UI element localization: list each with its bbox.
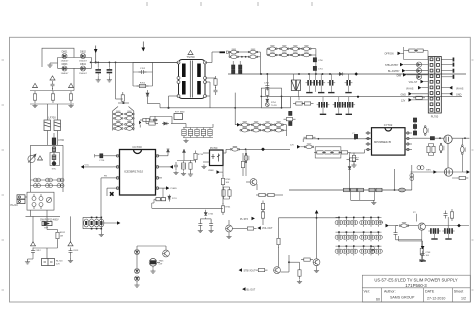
current sense bus (289, 189, 412, 191)
wire caps row2 to bus (323, 97, 349, 114)
parts under dark cap (352, 153, 355, 165)
svg-text:RL700: RL700 (56, 261, 63, 263)
aux diode D793 (99, 219, 104, 227)
capacitor C756 below diode pair (232, 65, 235, 69)
rectifier diode D750 (229, 49, 239, 54)
reference cap C765 (198, 221, 202, 229)
comp resistor 3 (330, 151, 342, 154)
resistor right of grid (284, 118, 296, 121)
capacitor C717 (174, 162, 178, 170)
grounds row 2 (320, 114, 326, 115)
wire snubber to bus (133, 61, 179, 63)
capacitor C809 (153, 116, 157, 124)
transformer TS700 label and triangle (188, 50, 194, 54)
svg-text:27-12-2010: 27-12-2010 (427, 297, 445, 301)
ground below R801 (32, 104, 37, 108)
right rail with node circle (411, 165, 413, 190)
top ruler tick 3 (257, 2, 259, 6)
svg-text:R702: R702 (140, 82, 146, 84)
snubber rows rails (267, 49, 316, 74)
aux diode D792 (94, 219, 99, 227)
resistor R797 (301, 258, 313, 261)
array LED pair D823 (360, 247, 368, 256)
sense resistor row R780-R784 (344, 188, 350, 191)
wires into PC700 (203, 149, 231, 162)
bulk capacitor C804 (107, 67, 113, 75)
ground zener stack (134, 283, 139, 287)
arrow aux out (101, 222, 117, 224)
ground under sense row (371, 201, 376, 205)
transistor Q761 (250, 179, 257, 186)
cap C750 dark (313, 58, 316, 62)
ground bar under group2 (445, 238, 451, 239)
rectifier diode D752 (248, 49, 258, 54)
ground bar under C748 (419, 260, 425, 261)
wire caps row1 to bus (309, 74, 348, 92)
zener Z701 below CC700 (168, 195, 171, 202)
earth triangle near varistor (37, 156, 43, 160)
wires Q792 region (229, 201, 263, 229)
earth triangle above R right (68, 83, 74, 87)
vertical feed to group2 (447, 217, 449, 228)
array LED pair D804 (367, 218, 375, 227)
diode bank element D6 (125, 122, 135, 127)
array LED pair D800 (335, 218, 343, 227)
Y-capacitor CY1 (51, 81, 55, 89)
CY702 pin left 1 (366, 132, 372, 134)
feedback wire to CY702 (303, 139, 371, 142)
svg-text:C812: C812 (36, 250, 42, 252)
bottom rail LED stage (411, 171, 470, 173)
opto output rail (222, 166, 224, 205)
series impedance Z801 (52, 147, 55, 152)
wire PC700 to CY702 feedback (239, 148, 290, 150)
resistor R796 vertical (298, 267, 301, 279)
transistor Q745 (418, 223, 425, 230)
junction dots on bus (260, 73, 331, 75)
LED array rail dots (338, 217, 379, 247)
wire switch to surge row (26, 210, 71, 243)
transformer winding bar top-left (182, 64, 186, 78)
transistor Q791 (163, 250, 170, 257)
main 24V output bus (228, 73, 466, 75)
transformer pin left (177, 61, 180, 64)
flag DIM-CTL (386, 224, 389, 228)
cap C751 dark (313, 66, 316, 70)
CC700 pin 2 left (113, 166, 120, 168)
array LED pair D815 (375, 233, 383, 242)
secondary diode D763 top (274, 122, 284, 127)
capacitor C759 bank row2 (239, 70, 242, 74)
bulk capacitor C803 (95, 67, 101, 75)
flag on bottom rail (433, 170, 436, 174)
ground symbol right area (201, 165, 206, 169)
bias resistor R812 (56, 230, 59, 242)
secondary diode D761 top (251, 122, 261, 127)
capacitor C745 (394, 230, 398, 238)
svg-text:ICE3BR1765J: ICE3BR1765J (124, 169, 144, 173)
CC700 pin 3 left (113, 177, 120, 179)
BL-OUT net flag (242, 287, 245, 291)
wire transformer bottom-left to return (148, 96, 179, 108)
resistor R809 (140, 118, 152, 121)
Y-capacitor pair CY802 top (46, 178, 53, 182)
diode bank element D8 (125, 126, 135, 131)
ellipse resistor R745 (399, 223, 409, 228)
svg-text:1N4007: 1N4007 (79, 60, 87, 62)
right vertical rail x=63 (62, 145, 64, 192)
reference cap C766 (209, 221, 213, 229)
Y-capacitor pair CY801 bottom (34, 184, 41, 188)
black mark right of bank (139, 121, 141, 125)
CY702 pin left 4 (366, 149, 372, 151)
drop rail to diode bank (116, 62, 123, 99)
resistor R718 (189, 160, 192, 172)
array LED pair D825 (375, 247, 383, 256)
secondary diode D762 top (263, 122, 273, 127)
feedback diode D753 (266, 99, 269, 102)
svg-text:PGND: PGND (171, 188, 178, 190)
PL700 pin pair row 9 (430, 103, 433, 106)
svg-text:STBY/OUT: STBY/OUT (244, 269, 256, 272)
svg-text:OFF/ON: OFF/ON (385, 53, 394, 56)
resistor R794 (256, 269, 268, 272)
svg-text:Author:: Author: (384, 290, 396, 294)
earth triangle above R left (32, 83, 38, 87)
array LED pair D814 (367, 233, 375, 242)
resistor R795 on rail (277, 236, 280, 248)
transformer winding bar bottom-left (182, 81, 186, 95)
svg-text:D803: D803 (62, 63, 68, 66)
ground below C813 (68, 259, 73, 263)
circle pair left of array bottom (371, 247, 375, 254)
right ruler tick 3 (472, 239, 474, 241)
Y-capacitor pair CY802 bottom (46, 184, 53, 188)
svg-text:VCC: VCC (85, 165, 90, 167)
line input stub with arrow x=143 (142, 42, 144, 52)
dark cap right of grid 2 (289, 122, 292, 126)
aux cap row rails (183, 124, 213, 138)
grounds row 1 (306, 92, 312, 93)
right VN-AS flag (449, 86, 452, 90)
svg-text:CY702: CY702 (384, 123, 393, 127)
secondary diode D763 bottom (274, 127, 284, 132)
feedback resistor ellipse (304, 144, 314, 149)
junction dots on B+ bus (90, 62, 117, 64)
snubber row bottom R754-R757 (268, 52, 278, 57)
B+ input stub with arrow (95, 46, 97, 63)
right ruler tick 4 (472, 289, 474, 291)
diode D801 (62, 54, 67, 59)
svg-text:D802: D802 (80, 51, 86, 54)
Y-capacitor pair CY803 bottom (57, 184, 64, 188)
collector rail Q793 (279, 218, 339, 267)
AC inlet connector PL/AC (17, 195, 25, 204)
svg-text:VOL-ST: VOL-ST (409, 81, 418, 84)
Q794 collector wire (316, 218, 318, 259)
connector PL700 body (428, 57, 441, 114)
ellipse on chain x=246 (244, 153, 249, 163)
bus diode D758 (338, 72, 345, 75)
svg-text:GND: GND (456, 93, 462, 96)
diode D804 (81, 66, 86, 71)
snubber loop wires (133, 62, 153, 86)
secondary diode D760 top (240, 122, 250, 127)
array LED pair D821 (343, 247, 351, 256)
CC700 pin 6 right (156, 177, 163, 179)
boost MOSFET Q770 (444, 135, 452, 143)
CY702 pin right 8 (405, 132, 412, 134)
resistor box pair left (222, 187, 225, 199)
array LED pair D803 (360, 218, 368, 227)
pre-regulator dual element Q750 (291, 80, 300, 91)
resistor R761 vertical (241, 159, 244, 171)
thermistor box RT711 (174, 114, 183, 120)
aux resistor R711 (146, 122, 158, 125)
node stub above Q745 (416, 214, 418, 222)
wire stub (152, 119, 158, 121)
switch fuse element 1 (32, 194, 36, 209)
CY702 pin left 2 (366, 138, 372, 140)
ground return wire below CC700 (152, 203, 223, 208)
transistor Q794 (313, 259, 320, 266)
diode bank element D4 (125, 115, 135, 120)
bcap group right of Q745 no.1 (428, 228, 436, 234)
startup resistor R716 (194, 151, 197, 163)
secondary diode D761 bottom (251, 127, 261, 132)
wire R812 joins (33, 226, 58, 259)
indicator diode ring 1 (416, 62, 421, 67)
transformer pin right (204, 77, 207, 80)
relay RL700 (42, 259, 55, 266)
components far right mid (444, 211, 448, 219)
wire between MOSFETs (447, 143, 449, 167)
right side wires from connector (441, 60, 452, 94)
secondary grid feed arrow (235, 93, 237, 125)
optocoupler PC700 (210, 150, 224, 166)
comp resistor 1 (314, 151, 326, 154)
svg-text:R812: R812 (60, 232, 66, 234)
diode bank element D3 (113, 115, 123, 120)
IC CY702 body (372, 128, 406, 155)
bridge rail wires (50, 53, 92, 72)
aux diode D791 (89, 219, 94, 227)
ground below R803 (68, 104, 73, 108)
svg-text:F700: F700 (59, 139, 65, 142)
PL700 pin pair row 5 (430, 80, 433, 83)
top ruler tick 2 (200, 2, 202, 6)
svg-text:GND: GND (401, 93, 407, 96)
svg-text:TS700: TS700 (186, 55, 195, 59)
svg-text:C813: C813 (73, 250, 79, 252)
MOV disc element (52, 155, 56, 160)
svg-text:1N4007: 1N4007 (61, 73, 69, 75)
wire corner to C748 (399, 236, 423, 247)
PL700 pin pair row 7 (430, 92, 433, 95)
12V secondary bus (281, 96, 462, 98)
secondary diode D762 bottom (263, 127, 273, 132)
fuse F700 (52, 138, 55, 145)
ground aux rect (99, 233, 104, 237)
regulator pass element Q790 (149, 259, 157, 267)
Y-capacitor pair CY801 top (34, 178, 41, 182)
Y-capacitor pair CY803 top (57, 178, 64, 182)
transformer winding bar top-right (197, 64, 201, 78)
secondary feedback rail to bottom (262, 221, 264, 225)
ground Q790 (150, 269, 155, 273)
svg-text:C702: C702 (140, 68, 146, 70)
diode bank rails (113, 103, 134, 131)
feedback loop wires (261, 74, 281, 108)
transformer pin right (204, 61, 207, 64)
transformer right pin wires to secondary (205, 52, 220, 108)
dark cap right of grid 1 (289, 111, 292, 115)
resistor stack R793 (261, 201, 264, 213)
capacitor C758 bank row2 (232, 70, 235, 74)
net flag bar left of D750 (220, 51, 226, 53)
feedback cap C753 (265, 83, 269, 91)
flag STBY/OUT (239, 268, 242, 272)
compensation network box (315, 147, 341, 158)
ellipse resistor R774 (461, 145, 466, 155)
resistor on 12V row (413, 96, 425, 99)
dark cap at CY702 pin2 (354, 134, 357, 138)
snubber capacitor C702 (139, 70, 147, 74)
stack caps right of connector foot (413, 118, 416, 122)
CC700 pin 4 left (113, 187, 120, 189)
svg-text:VN-AS: VN-AS (406, 87, 414, 90)
resistor R792 (245, 227, 257, 230)
arrow up 12V flag (315, 210, 319, 214)
svg-text:PL700: PL700 (431, 115, 439, 119)
wires mid-left secondary (243, 153, 283, 195)
capacitor at CC700 pin1 (100, 154, 103, 158)
svg-text:Sheet: Sheet (454, 290, 463, 294)
ground Q794 (314, 269, 319, 273)
diode bank element D7 (113, 126, 123, 131)
discharge resistor R803 (69, 91, 72, 103)
collector wire Q745 right (425, 225, 469, 227)
wire choke to fuse (48, 131, 58, 146)
feedback resistor R753 (266, 86, 269, 98)
secondary diode D760 bottom (240, 127, 250, 132)
aux loop wires (146, 117, 186, 124)
svg-text:12V: 12V (401, 100, 406, 103)
array LED pair D802 (350, 218, 358, 227)
ground C765 (198, 229, 203, 233)
secondary grid rails (249, 125, 287, 136)
array LED pair D810 (335, 233, 343, 242)
svg-text:D804: D804 (80, 63, 86, 66)
diode D716 (183, 149, 186, 153)
X2 capacitor C813 (69, 248, 73, 256)
aux rect rails (83, 217, 101, 228)
line switch box (27, 192, 54, 210)
power switch contact (25, 197, 52, 203)
resistor R775 bottom right (456, 176, 468, 179)
wire CC700 pin4 with diamond (107, 188, 113, 193)
svg-text:DIM: DIM (379, 222, 383, 224)
cap C780 on bus right (399, 188, 406, 192)
rectifier diode D753 (248, 54, 258, 59)
svg-text:DATE: DATE (425, 290, 435, 294)
diamond junction right (457, 224, 461, 228)
top ruler tick 1 (146, 2, 148, 6)
svg-text:PL/AC: PL/AC (11, 203, 19, 207)
wire zener stack (136, 246, 138, 283)
indicator diode ring 2 (416, 68, 421, 73)
IC CC700 body (120, 150, 156, 196)
svg-text:12V: 12V (56, 264, 60, 266)
diode bank element D2 (125, 111, 135, 116)
svg-text:R716: R716 (198, 154, 204, 156)
LED array row rails (336, 217, 382, 246)
svg-text:CC700: CC700 (132, 145, 142, 149)
title block outline (362, 275, 470, 302)
CY702 pin right 7 (405, 138, 412, 140)
reference zener D765 (204, 210, 207, 216)
comp resistor 2 (322, 151, 334, 154)
CC700 pin 7 right (156, 166, 163, 168)
discharge resistor R802 (51, 91, 54, 103)
transistor Q793 (274, 267, 281, 274)
X-cap safety earth symbol (50, 76, 56, 80)
right ruler tick 2 (472, 149, 474, 151)
switch fuse element 2 (39, 194, 43, 209)
bcap group right of Q745 no.2 (442, 228, 450, 234)
capacitor C757 below diode pair (239, 65, 242, 69)
zener diode on down rail (348, 167, 351, 170)
top ruler tick 4 (311, 2, 313, 6)
net flag into CC700 pin2 (84, 166, 113, 168)
array LED pair D812 (350, 233, 358, 242)
CY702 pin4 down rail (350, 150, 365, 191)
common-mode choke LF700 (44, 120, 61, 131)
resistor group below bus left (293, 102, 305, 105)
ground at bridge input (47, 63, 52, 67)
transformer pin right (204, 95, 207, 98)
diamond junction on feedback wire (261, 148, 265, 152)
resistor on feedback wire (304, 136, 316, 139)
snubber loop box (50, 153, 60, 166)
array LED pair D813 (360, 233, 368, 242)
transistor Q792 (226, 225, 233, 232)
svg-text:C716: C716 (99, 160, 105, 162)
PGND arrow at right pin4 (162, 187, 166, 189)
wire filter rails (30, 88, 74, 120)
svg-text:Ver:: Ver: (364, 290, 370, 294)
left ruler tick 6 (2, 289, 5, 291)
snubber row top R750-R753 (268, 46, 278, 51)
zener at CC700 pin8 right (167, 149, 170, 152)
filter caps row 2 (317, 102, 325, 108)
varistor RV801 (28, 154, 36, 163)
svg-text:ISEN: ISEN (426, 170, 431, 172)
transformer pin left (177, 77, 180, 80)
left ruler tick 2 (2, 104, 5, 106)
CC700 pin 5 right (156, 187, 163, 189)
PL700 pin pair row 3 (430, 69, 433, 72)
ground C766 (209, 229, 214, 233)
PL700 pin pair row 10 (430, 108, 433, 111)
right ruler tick 1 (472, 59, 474, 61)
transformer core lines (190, 61, 192, 98)
array LED pair D811 (343, 233, 351, 242)
left ruler tick 1 (2, 59, 5, 61)
CY702 pin right 6 (405, 143, 412, 145)
svg-text:VN-AS: VN-AS (456, 87, 464, 90)
feedback resistor R764 (221, 203, 224, 215)
